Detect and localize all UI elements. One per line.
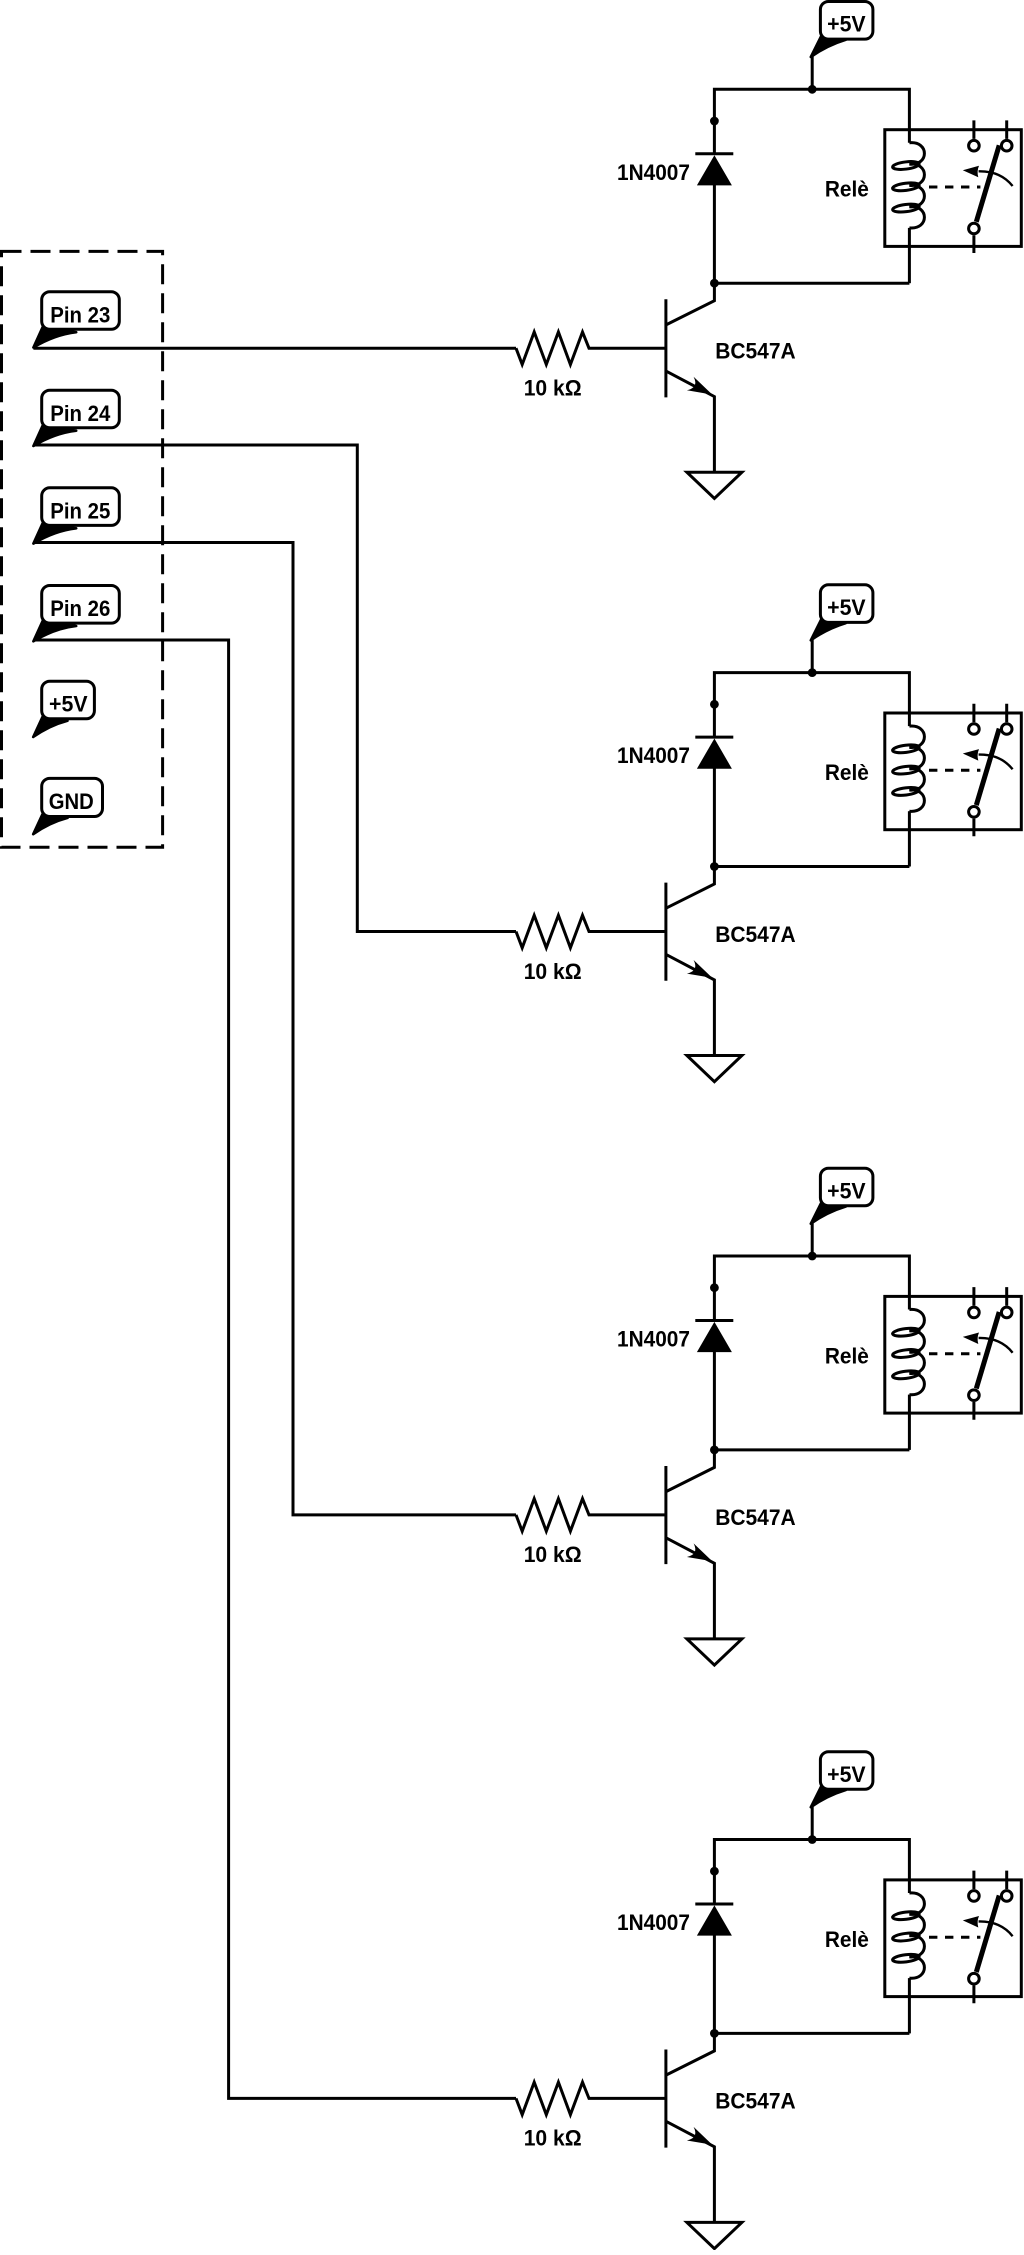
svg-text:GND: GND	[49, 789, 94, 814]
svg-text:Pin 23: Pin 23	[50, 302, 110, 327]
svg-text:Pin 24: Pin 24	[50, 401, 111, 426]
svg-text:Pin 25: Pin 25	[50, 498, 110, 523]
svg-text:+5V: +5V	[49, 692, 88, 717]
svg-text:Pin 26: Pin 26	[50, 596, 110, 621]
